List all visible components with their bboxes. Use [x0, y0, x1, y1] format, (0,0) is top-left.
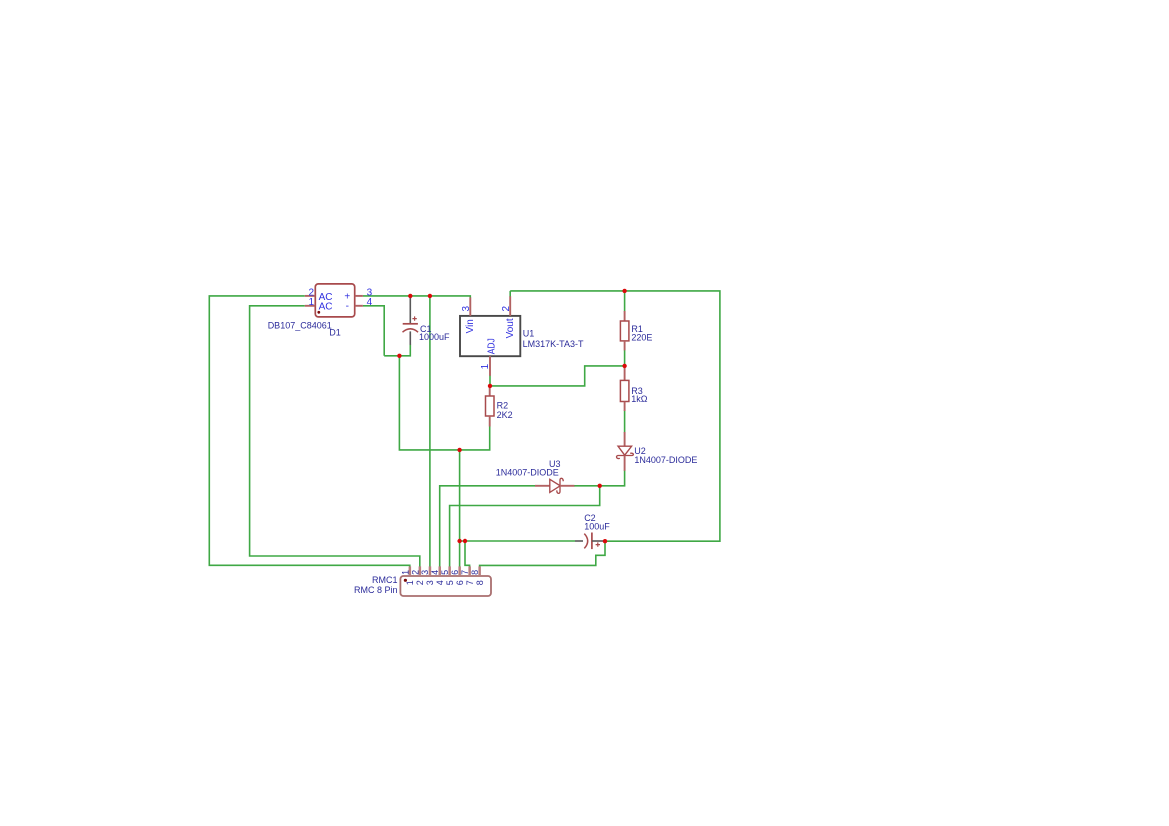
- wire C1 bottom to minus rail: [384, 345, 410, 356]
- svg-text:2: 2: [415, 580, 425, 585]
- R3 bottom lead: [624, 402, 626, 412]
- svg-text:AC: AC: [319, 302, 333, 313]
- C2 positive plate: [591, 533, 593, 550]
- D1 pin 4 lead: [355, 305, 363, 307]
- svg-text:4: 4: [367, 297, 373, 308]
- wire net ADJ: U1 ADJ to R2 top and across to R1/R3 node: [490, 366, 625, 386]
- svg-text:8: 8: [470, 570, 480, 575]
- U3 triangle: [550, 479, 560, 492]
- junction dot ADJ node: [488, 384, 492, 388]
- D1 pin 3 lead: [355, 295, 363, 297]
- C2 curved plate: [584, 534, 587, 549]
- U3 cathode bar with hooks: [557, 478, 563, 493]
- C1 plus marker: [412, 316, 416, 320]
- resistor R1: [620, 311, 652, 350]
- U1 pin 1 ADJ lead: [489, 356, 491, 376]
- wire net VPLUS: D1 pin3 to C1 top to U1 Vin: [363, 296, 470, 298]
- svg-text:DB107_C84061: DB107_C84061: [268, 320, 332, 330]
- wire R1 top: [624, 291, 626, 312]
- wire U2 bottom L to U3 node: [600, 470, 625, 486]
- svg-text:3: 3: [420, 570, 430, 575]
- C2 right lead: [592, 540, 605, 542]
- wire net VOUT: U1 Vout rail right and down: [510, 291, 720, 541]
- svg-text:6: 6: [450, 570, 460, 575]
- U2 cathode lead: [624, 456, 626, 471]
- R1 body: [620, 321, 629, 341]
- wire C2 right jog down to RMC1 pin8: [480, 541, 605, 567]
- C1 curved plate: [403, 329, 419, 332]
- svg-text:4: 4: [435, 580, 445, 585]
- R2 bottom lead: [489, 416, 491, 427]
- svg-text:1: 1: [405, 580, 415, 585]
- svg-text:3: 3: [461, 306, 472, 312]
- svg-text:1kΩ: 1kΩ: [631, 394, 648, 404]
- svg-text:1: 1: [400, 570, 410, 575]
- wire Vout green stub: [509, 291, 511, 297]
- D1 pin 2 lead: [305, 295, 316, 297]
- wire C1 top stub: [409, 296, 411, 299]
- junction dot C1 top: [408, 294, 412, 298]
- svg-text:4: 4: [430, 570, 440, 575]
- resistor R2: [486, 386, 513, 427]
- wire VMINUS down to R2 bottom rail: [399, 356, 489, 450]
- svg-text:1000uF: 1000uF: [419, 332, 450, 342]
- U1 pin 2 Vout lead: [509, 296, 511, 316]
- U2 triangle: [618, 446, 632, 455]
- svg-text:100uF: 100uF: [584, 522, 610, 532]
- svg-text:RMC 8 Pin: RMC 8 Pin: [354, 585, 398, 595]
- resistor R3: [620, 366, 647, 411]
- svg-text:ADJ: ADJ: [487, 338, 498, 354]
- R2 top lead: [489, 386, 491, 396]
- junction dot pin7 branch: [463, 539, 467, 543]
- svg-text:-: -: [346, 301, 349, 312]
- C2 plus marker: [596, 542, 600, 546]
- diode U3: [496, 459, 575, 493]
- svg-text:6: 6: [455, 580, 465, 585]
- RMC1 inside pin numbers 1-8: [405, 580, 485, 585]
- wire R3 bottom to U2 top: [624, 411, 626, 433]
- svg-text:Vout: Vout: [505, 318, 516, 338]
- wire U3 cathode to node: [574, 485, 600, 487]
- junction dot R1/R3 node: [622, 364, 626, 368]
- wire net DIN: RMC1 pin4 riser to U3 anode: [440, 486, 535, 567]
- svg-text:LM317K-TA3-T: LM317K-TA3-T: [523, 339, 584, 349]
- svg-text:Vin: Vin: [465, 319, 476, 333]
- R2 body: [486, 396, 495, 416]
- capacitor C2: [575, 513, 610, 549]
- wire U3 node down-left to RMC1 pin5 riser: [450, 486, 600, 567]
- R1 bottom lead: [624, 341, 626, 351]
- RMC1 pin stubs: [409, 566, 481, 576]
- junction dot U3 cathode node: [598, 484, 602, 488]
- U2 anode lead: [624, 432, 626, 446]
- U3 cathode lead: [560, 485, 575, 487]
- svg-text:7: 7: [465, 580, 475, 585]
- wire pin7 branch jog: [465, 541, 470, 567]
- svg-text:8: 8: [475, 580, 485, 585]
- U2 cathode bar with hooks: [617, 453, 634, 458]
- junction dot pin6 riser on minus rail: [457, 448, 461, 452]
- wire VPLUS riser to RMC1 pin3: [429, 296, 431, 567]
- R3 body: [620, 380, 629, 401]
- RMC1 pin1 marker dot: [404, 579, 407, 582]
- C1 bottom lead: [409, 331, 411, 345]
- svg-text:U1: U1: [523, 329, 535, 339]
- junction dot C1 bottom: [397, 354, 401, 358]
- RMC1 outside pin numbers 1-8: [400, 570, 480, 575]
- svg-text:5: 5: [445, 580, 455, 585]
- svg-text:1: 1: [309, 297, 315, 308]
- svg-text:5: 5: [440, 570, 450, 575]
- svg-text:D1: D1: [329, 327, 341, 337]
- connector RMC1: [354, 566, 491, 596]
- U3 anode lead: [535, 485, 550, 487]
- svg-text:1N4007-DIODE: 1N4007-DIODE: [496, 467, 559, 477]
- junction dot pin3 riser: [428, 294, 432, 298]
- svg-text:7: 7: [460, 570, 470, 575]
- wire R1 bottom to node: [624, 350, 626, 366]
- svg-text:2: 2: [501, 306, 512, 312]
- junction dot R1 top: [622, 289, 626, 293]
- svg-text:2K2: 2K2: [497, 410, 513, 420]
- capacitor C1: [403, 298, 451, 345]
- C2 left lead: [575, 540, 583, 542]
- D1 pin 1 lead: [305, 305, 316, 307]
- C1 positive plate: [403, 323, 418, 325]
- svg-text:3: 3: [425, 580, 435, 585]
- svg-text:RMC1: RMC1: [372, 575, 398, 585]
- wire net VMINUS: D1 pin4 jog down: [363, 306, 384, 356]
- regulator U1: [460, 296, 584, 376]
- wire C2 left to pin6 riser: [460, 540, 575, 542]
- wire net AC2: D1 pin1 left loop down to RMC1 pin2: [250, 306, 420, 567]
- wire net AC1: D1 pin2 left loop down to RMC1 pin1: [209, 296, 409, 567]
- junction dot C2 right: [603, 539, 607, 543]
- junction dot pin6 riser C2 line: [457, 539, 461, 543]
- C1 top lead: [409, 298, 411, 324]
- R3 top lead: [624, 366, 626, 380]
- svg-text:2: 2: [410, 570, 420, 575]
- diode U2: [617, 432, 698, 471]
- wire VMINUS riser to RMC1 pin6: [459, 450, 461, 567]
- U1 pin 3 Vin lead: [469, 297, 471, 316]
- svg-text:1N4007-DIODE: 1N4007-DIODE: [634, 455, 697, 465]
- R1 top lead: [624, 311, 626, 321]
- D1 pin1 marker dot: [317, 311, 320, 314]
- bridge rectifier D1: [268, 284, 373, 337]
- svg-text:220E: 220E: [631, 333, 652, 343]
- svg-text:1: 1: [480, 363, 491, 369]
